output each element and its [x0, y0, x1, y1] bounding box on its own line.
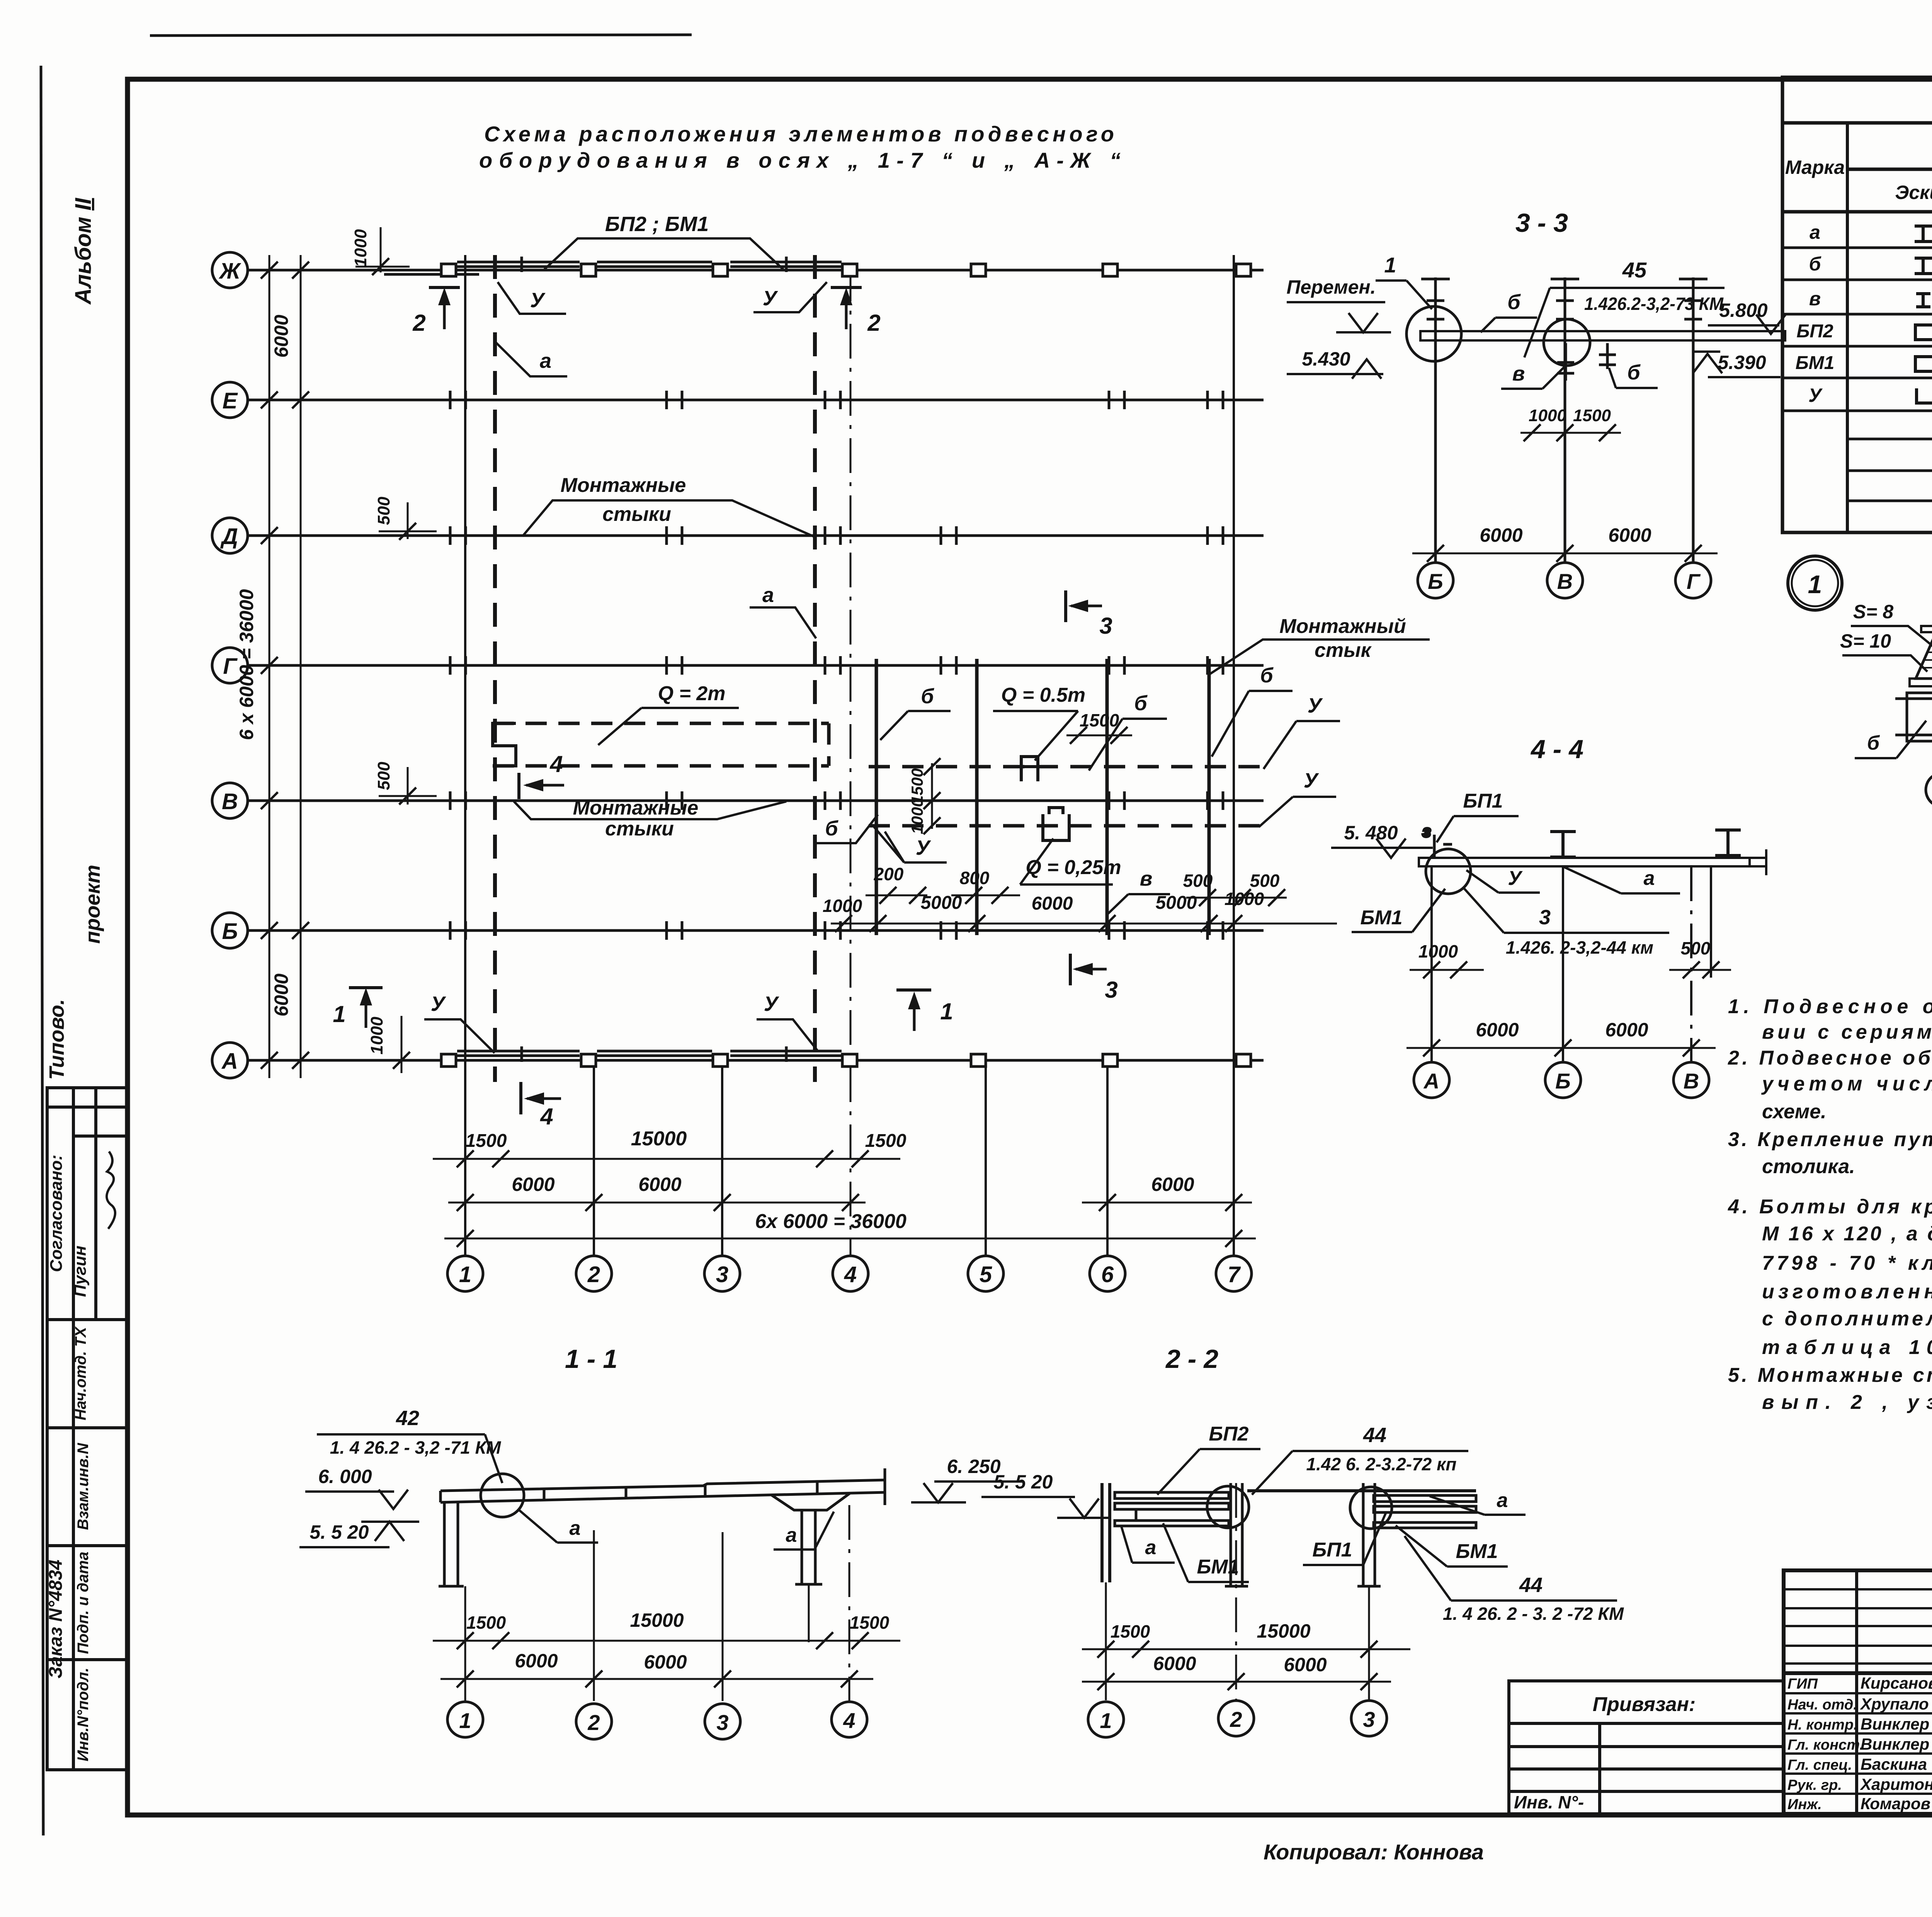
beam 4-4 [1419, 858, 1766, 866]
staff row lines [1784, 1693, 1932, 1794]
table columns [1847, 123, 1932, 532]
axis Г hanger [1679, 277, 1708, 563]
svg-text:6: 6 [1101, 1262, 1114, 1287]
elevation 5.520 left (2-2) [981, 1471, 1111, 1518]
margin stamp box 3 [47, 1428, 128, 1546]
label Монтажные стыки upper [522, 474, 813, 536]
svg-text:1. 4 26.2 - 3,2 -71 КМ: 1. 4 26.2 - 3,2 -71 КМ [330, 1437, 502, 1458]
svg-text:БМ1: БМ1 [1360, 907, 1402, 929]
margin stamp box 5 [47, 1660, 128, 1770]
svg-text:6х 6000 = 36000: 6х 6000 = 36000 [755, 1210, 906, 1233]
small dim 1000 near Ж [351, 227, 410, 275]
crane runway dashed line 1 (Q=0.5т) [869, 765, 1271, 769]
svg-text:1000: 1000 [1225, 889, 1264, 909]
svg-text:2: 2 [587, 1262, 600, 1287]
column axis 6 [1090, 1060, 1125, 1291]
svg-text:в: в [1512, 362, 1525, 385]
svg-text:БМ1: БМ1 [1796, 353, 1835, 373]
label У top-left [498, 282, 566, 314]
svg-text:Б: Б [222, 919, 238, 944]
svg-text:а: а [786, 1524, 797, 1546]
svg-text:6000: 6000 [1476, 1019, 1519, 1041]
svg-text:У: У [1508, 867, 1523, 890]
svg-text:5.800: 5.800 [1719, 299, 1767, 321]
dim 1000 1500 near В [1520, 406, 1621, 441]
svg-text:1000: 1000 [351, 229, 370, 267]
svg-text:6000: 6000 [512, 1174, 554, 1195]
left end plate (2-2) [1102, 1483, 1110, 1582]
svg-text:S= 10: S= 10 [1840, 630, 1891, 652]
right column (1-1) [771, 1493, 850, 1584]
elevation 5.800 [1708, 299, 1786, 334]
svg-text:1000: 1000 [1418, 941, 1458, 961]
svg-text:500: 500 [1183, 871, 1213, 891]
svg-text:с дополнительными испытания: с дополнительными испытаниями по п.п. 1.… [1762, 1308, 1932, 1330]
svg-text:а: а [1810, 221, 1820, 243]
grid bubble Б (detail 1) [1926, 741, 1932, 807]
svg-text:вии с сериями 1. 420.: вии с сериями 1. 420. 3 - 15. Вып. 1 и 1… [1762, 1021, 1932, 1043]
row axis В [212, 783, 1264, 818]
section marker 2 left [412, 287, 460, 336]
svg-text:1: 1 [1384, 253, 1396, 277]
svg-text:3: 3 [1099, 613, 1112, 639]
axis verticals 4-4 [1432, 866, 1711, 1063]
svg-text:схеме.: схеме. [1762, 1101, 1827, 1123]
svg-text:5: 5 [980, 1262, 992, 1287]
svg-text:1 - 1: 1 - 1 [565, 1344, 617, 1374]
svg-text:У: У [1808, 384, 1823, 406]
row axis Е [212, 382, 1264, 418]
svg-text:стык: стык [1315, 639, 1372, 662]
label а (4-4) [1564, 867, 1680, 893]
svg-text:44: 44 [1519, 1573, 1543, 1597]
label б (detail 1) [1855, 721, 1926, 758]
svg-text:Монтажный: Монтажный [1279, 615, 1406, 638]
rotated dims 1500/1000 at bay [908, 758, 940, 834]
elevation 5.430 (right of col 7) [1287, 348, 1383, 379]
row axis Ж [212, 252, 1264, 288]
svg-text:б: б [1627, 361, 1641, 384]
svg-text:Перемен.: Перемен. [1286, 276, 1376, 298]
svg-text:Баскина: Баскина [1861, 1755, 1927, 1773]
section marker 4 bottom [521, 1082, 561, 1129]
svg-text:3: 3 [1363, 1707, 1375, 1732]
svg-text:б: б [1867, 732, 1880, 754]
svg-text:Винклер: Винклер [1861, 1715, 1929, 1733]
svg-text:4 - 4: 4 - 4 [1530, 735, 1583, 764]
svg-text:стыки: стыки [602, 503, 671, 526]
svg-text:15000: 15000 [631, 1128, 687, 1150]
svg-text:1: 1 [459, 1708, 471, 1733]
svg-text:Альбом II: Альбом II [71, 197, 96, 305]
svg-text:3: 3 [1539, 906, 1551, 929]
svg-text:Гл. спец.: Гл. спец. [1787, 1757, 1852, 1773]
hanger stub at А [1423, 823, 1452, 859]
svg-text:1: 1 [1808, 570, 1822, 599]
staff titles [1787, 1676, 1864, 1813]
label БП1 [1437, 790, 1519, 842]
svg-text:5. 480: 5. 480 [1344, 822, 1398, 844]
svg-text:1.42 6. 2-3.2-72 кп: 1.42 6. 2-3.2-72 кп [1306, 1454, 1457, 1474]
table frame [1782, 77, 1932, 532]
svg-text:Нач. отд.: Нач. отд. [1787, 1697, 1857, 1713]
detail circle (1-1) [481, 1474, 524, 1517]
svg-text:6000: 6000 [1032, 893, 1073, 914]
row axis Б [212, 913, 1264, 948]
svg-text:6000: 6000 [270, 973, 292, 1016]
svg-text:б: б [825, 817, 838, 840]
label У row А left [424, 992, 495, 1053]
label У (bay mid) [874, 827, 947, 862]
detail circle at В [1544, 319, 1590, 366]
svg-text:з: з [1423, 823, 1430, 840]
svg-text:У: У [431, 992, 446, 1015]
label Q=0.5т [993, 684, 1085, 760]
svg-text:1.426. 2-3,2-44 км: 1.426. 2-3,2-44 км [1506, 937, 1653, 958]
svg-text:6. 250: 6. 250 [947, 1456, 1000, 1477]
svg-text:1. 4 26. 2 - 3. 2 -72 КМ: 1. 4 26. 2 - 3. 2 -72 КМ [1443, 1604, 1624, 1624]
svg-text:5000: 5000 [921, 893, 962, 913]
svg-text:В: В [1684, 1069, 1699, 1093]
beam end ticks 4-4 [1750, 849, 1766, 875]
label 44 / series КП (2-2) [1252, 1424, 1468, 1495]
right column (2-2) [1357, 1483, 1381, 1586]
svg-text:У: У [1304, 769, 1319, 792]
svg-text:проект: проект [81, 865, 104, 944]
svg-text:2: 2 [1230, 1707, 1242, 1732]
svg-text:7: 7 [1228, 1262, 1241, 1287]
row axis Д [212, 518, 1264, 553]
heavy dashed montage-joint line left [493, 255, 497, 1082]
svg-text:Нач.отд. ТХ: Нач.отд. ТХ [72, 1326, 89, 1420]
small dims 4-4 [1410, 961, 1731, 978]
elevation 6.000 (1-1) [305, 1466, 408, 1509]
left vertical dimension lines [269, 255, 301, 1078]
gusset [1916, 638, 1932, 679]
column axis 1 [447, 255, 483, 1291]
column axis 7 [1216, 255, 1252, 1291]
svg-text:б: б [1134, 692, 1148, 715]
staff names [1860, 1674, 1932, 1813]
svg-text:1500: 1500 [850, 1613, 889, 1633]
svg-text:6000: 6000 [644, 1651, 687, 1673]
label а left (1-1) [518, 1509, 598, 1543]
label а right (2-2) [1430, 1489, 1526, 1515]
svg-text:500: 500 [1681, 938, 1711, 958]
svg-text:2: 2 [412, 310, 425, 336]
svg-text:4: 4 [540, 1104, 553, 1129]
label Монтажный стык (top right) [1209, 615, 1430, 674]
rail beams row Ж (БП2/БМ1) [384, 257, 842, 274]
left column (1-1) [439, 1502, 464, 1586]
label Q=0,25т [1020, 839, 1121, 885]
label Перемен. (right of col 7) [1286, 276, 1391, 332]
plan bottom dim 6000 / 6000 [448, 1174, 1252, 1211]
svg-text:6000: 6000 [1284, 1654, 1327, 1675]
detail 1 bubble [1788, 556, 1842, 610]
dim 6000/6000 (2-2) [1082, 1653, 1391, 1690]
small dim 1000 near А [367, 1016, 440, 1073]
svg-text:б: б [921, 685, 934, 708]
hangers below beam near В [1557, 343, 1616, 381]
column axis 3 [704, 1060, 740, 1291]
small dim 500 near Д [374, 497, 437, 540]
svg-text:6000: 6000 [1151, 1174, 1194, 1195]
dim 1500/15000 (2-2) [1082, 1620, 1410, 1658]
svg-text:Гл. конст.: Гл. конст. [1787, 1737, 1864, 1753]
top rail right bay (2-2) [1247, 1489, 1476, 1492]
axis verticals (2-2) [1106, 1483, 1369, 1700]
axis Б hanger [1421, 277, 1450, 563]
svg-text:Копировал: Коннова: Копировал: Коннова [1264, 1840, 1484, 1864]
detail circle right (2-2) [1350, 1487, 1392, 1529]
svg-text:Q = 2т: Q = 2т [658, 682, 726, 705]
svg-text:200: 200 [874, 864, 904, 884]
svg-text:БМ1: БМ1 [1456, 1540, 1498, 1563]
label У (4-4) [1466, 867, 1540, 893]
section marker 3 bottom [1070, 954, 1118, 1003]
label S=8 (detail 1) [1851, 601, 1932, 646]
svg-text:Инв. N°-: Инв. N°- [1514, 1792, 1584, 1812]
margin stamp box 2 [47, 1320, 128, 1428]
circles А Б В (4-4) [1414, 1062, 1709, 1098]
svg-text:5000: 5000 [1156, 893, 1197, 913]
label в (bay) [1107, 867, 1170, 914]
svg-text:ГИП: ГИП [1787, 1676, 1818, 1692]
svg-text:1: 1 [333, 1001, 345, 1027]
svg-text:Ж: Ж [218, 259, 241, 284]
label б (bay, upper-left) [880, 685, 951, 740]
label а upper [496, 342, 567, 376]
svg-text:5.390: 5.390 [1718, 352, 1766, 373]
seat plate [1910, 679, 1932, 686]
svg-text:1: 1 [1100, 1708, 1112, 1733]
svg-text:Подп. и дата: Подп. и дата [75, 1552, 92, 1654]
svg-text:в: в [1140, 867, 1153, 890]
plan bottom dim 6x6000=36000 [444, 1210, 1256, 1247]
small dim 500 near В [374, 762, 437, 805]
svg-text:Q = 0,25т: Q = 0,25т [1026, 856, 1121, 879]
svg-text:У: У [530, 289, 546, 312]
svg-text:5. Монтажные стыки выполн: 5. Монтажные стыки выполнять по серии 1.… [1728, 1364, 1932, 1386]
svg-text:а: а [1644, 867, 1655, 890]
crane zone notch [493, 723, 516, 766]
svg-text:S= 8: S= 8 [1853, 601, 1893, 623]
label б (bay, lower-left) [813, 815, 878, 843]
svg-text:А: А [221, 1049, 238, 1074]
rail beams row А (БП2/БМ1) [457, 1046, 842, 1062]
svg-text:1.426.2-3,2-73 КМ: 1.426.2-3,2-73 КМ [1584, 294, 1724, 314]
beam б (side) [1895, 693, 1932, 741]
svg-text:Согласовано:: Согласовано: [47, 1155, 66, 1272]
svg-text:а: а [540, 349, 551, 373]
svg-text:БП1: БП1 [1463, 790, 1503, 812]
taly square Q=0.5 [1016, 757, 1043, 781]
label 45 / series [1524, 258, 1725, 357]
svg-text:2: 2 [587, 1710, 600, 1735]
svg-text:а: а [570, 1517, 581, 1539]
circles 1 2 3 (2-2) [1088, 1701, 1387, 1737]
detail circle left (2-2) [1207, 1486, 1249, 1528]
label Q=2т [598, 682, 739, 745]
label Монтажные стыки lower [514, 797, 786, 840]
dim 800 [951, 868, 1020, 904]
title block verticals [1857, 1570, 1932, 1814]
svg-text:В: В [222, 789, 238, 814]
label 42 / series (1-1) [317, 1407, 502, 1483]
column axis 2 [576, 1060, 612, 1291]
rails left bay (2-2) [1115, 1492, 1229, 1526]
svg-text:44: 44 [1363, 1424, 1386, 1447]
svg-text:5.430: 5.430 [1302, 348, 1350, 370]
svg-text:БП2: БП2 [1209, 1423, 1248, 1445]
б beams verticals (right bay) [876, 659, 1209, 935]
svg-text:1500: 1500 [1573, 406, 1611, 425]
dim 1500/15000/1500 (1-1) [433, 1609, 900, 1649]
label в below beam [1501, 362, 1564, 389]
svg-text:4: 4 [549, 751, 563, 777]
dim 6000/6000 (1-1) [440, 1650, 873, 1687]
svg-text:15000: 15000 [630, 1609, 684, 1631]
svg-text:У: У [1308, 694, 1323, 717]
svg-text:а: а [762, 583, 774, 607]
label З / series (4-4) [1418, 888, 1711, 961]
upper small rows [1784, 1589, 1932, 1664]
svg-text:Хрупало: Хрупало [1860, 1695, 1929, 1713]
svg-text:Привязан:: Привязан: [1593, 1693, 1696, 1716]
svg-text:1: 1 [940, 998, 953, 1024]
svg-text:Инж.: Инж. [1787, 1796, 1822, 1813]
svg-text:Г: Г [1687, 569, 1701, 594]
detail circle at Б [1406, 306, 1461, 361]
crane runway dashed line 2 (Q=0.25т) [869, 824, 1271, 828]
mid column (2-2) [1225, 1483, 1248, 1586]
detail circle 4-4 [1426, 849, 1471, 894]
svg-text:6000: 6000 [270, 315, 292, 357]
svg-text:У: У [763, 287, 778, 310]
svg-text:500: 500 [374, 497, 393, 525]
hanger squares row А [441, 1054, 1251, 1067]
I symbols on beam 4-4 [1550, 830, 1741, 857]
svg-text:2: 2 [867, 310, 880, 336]
label а mid [750, 583, 816, 638]
svg-text:500: 500 [374, 762, 393, 790]
svg-text:У: У [916, 836, 931, 859]
section marker 2 right [831, 287, 881, 336]
dim 1500 (bay top) [1066, 710, 1132, 744]
svg-text:1500: 1500 [1111, 1621, 1150, 1641]
svg-text:1000: 1000 [823, 896, 862, 916]
column axis 5 [968, 1060, 1003, 1291]
label БМ1 (4-4) [1352, 889, 1445, 932]
dim 6000 6000 (3-3) [1412, 524, 1718, 562]
svg-text:Q = 0.5т: Q = 0.5т [1001, 684, 1085, 706]
svg-text:4: 4 [843, 1708, 855, 1733]
elevation 5.520 (1-1) [299, 1521, 419, 1547]
svg-text:Взам.инв.N: Взам.инв.N [75, 1442, 92, 1530]
svg-text:1500: 1500 [466, 1131, 507, 1151]
top-left short rule [150, 35, 692, 36]
svg-text:3 - 3: 3 - 3 [1515, 208, 1568, 238]
title block frame [1784, 1570, 1932, 1814]
label БП2;БМ1 top [544, 213, 783, 269]
svg-text:Марка: Марка [1785, 156, 1845, 178]
svg-text:6 х 6000 = 36000: 6 х 6000 = 36000 [236, 589, 257, 740]
label б above beam [1481, 291, 1537, 332]
svg-text:5. 5 20: 5. 5 20 [994, 1471, 1053, 1493]
svg-text:1500: 1500 [865, 1131, 906, 1151]
montage joint ticks on rows Е Д Г В Б [450, 391, 1223, 940]
svg-text:42: 42 [396, 1407, 419, 1430]
svg-text:БМ1: БМ1 [1197, 1556, 1239, 1578]
svg-text:45: 45 [1622, 258, 1647, 282]
dim 200 [866, 864, 927, 904]
svg-text:У: У [764, 992, 779, 1015]
dim 500 500 (right of col 7) [1183, 871, 1287, 906]
svg-text:Харитонов: Харитонов [1860, 1775, 1932, 1793]
label а left (2-2) [1121, 1526, 1175, 1563]
svg-text:Комаров: Комаров [1861, 1795, 1930, 1813]
svg-text:15000: 15000 [1257, 1620, 1310, 1642]
svg-text:Инв.N°подл.: Инв.N°подл. [75, 1668, 92, 1762]
svg-text:6. 000: 6. 000 [318, 1466, 372, 1487]
label У (bay right 1) [1264, 694, 1340, 769]
svg-text:Н. контр.: Н. контр. [1787, 1717, 1858, 1733]
hanger squares row Ж [441, 264, 1251, 276]
svg-text:3: 3 [716, 1710, 728, 1735]
svg-text:б: б [1260, 664, 1274, 687]
svg-text:6000: 6000 [515, 1650, 558, 1672]
crane zone Q=2т dashed rectangle [493, 723, 829, 766]
svg-text:БП2: БП2 [1796, 321, 1833, 342]
margin stamp box 1 (approvals) [47, 1088, 128, 1320]
row axis А [212, 1043, 1264, 1078]
svg-text:Рук. гр.: Рук. гр. [1787, 1777, 1842, 1793]
svg-text:4: 4 [844, 1262, 857, 1287]
top plate [1921, 626, 1932, 632]
svg-text:стыки: стыки [605, 818, 674, 840]
svg-text:6000: 6000 [1153, 1653, 1196, 1674]
svg-text:Е: Е [223, 388, 238, 413]
section marker 3 top [1066, 590, 1112, 639]
label БП1 (2-2) [1303, 1512, 1386, 1565]
axis verticals (1-1) [465, 1505, 849, 1701]
label а right (1-1) [774, 1512, 834, 1550]
label б (bay, far upper-right) [1212, 664, 1293, 757]
svg-text:а: а [1497, 1489, 1508, 1512]
outer left margin line [41, 66, 43, 1835]
svg-text:6000: 6000 [1480, 524, 1522, 546]
svg-text:б: б [1507, 291, 1521, 314]
circles 1 2 3 4 (1-1) [447, 1702, 867, 1739]
section marker 4 mid [519, 751, 564, 799]
svg-text:3: 3 [716, 1262, 728, 1287]
section marker 1 mid-right [896, 990, 953, 1031]
svg-text:1500: 1500 [466, 1613, 506, 1633]
heavy dashed montage-joint line right [813, 255, 817, 1082]
svg-text:1: 1 [459, 1262, 471, 1287]
svg-text:2 - 2: 2 - 2 [1165, 1344, 1218, 1374]
label S=10 left (detail 1) [1840, 630, 1927, 672]
svg-text:6000: 6000 [1605, 1019, 1648, 1041]
svg-text:столика.: столика. [1762, 1155, 1855, 1178]
taly square Q=0.25 [1043, 808, 1069, 840]
label БП2 (2-2) [1157, 1423, 1260, 1495]
elevation 6.250 (1-1) [911, 1456, 1024, 1502]
beam 1-1 (sloped) [440, 1468, 885, 1505]
label У (bay right 2) [1259, 769, 1336, 827]
margin signature [107, 1152, 115, 1229]
